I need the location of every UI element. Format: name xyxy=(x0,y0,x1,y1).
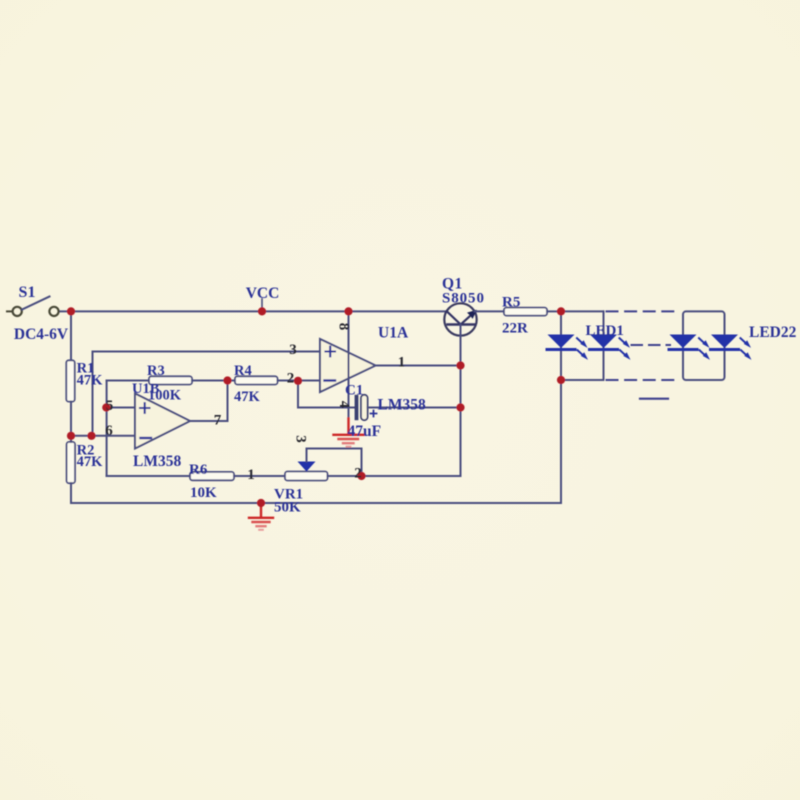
pin 2 VR1 xyxy=(354,466,362,482)
wire VCC rail S1 to Q1 xyxy=(59,310,447,312)
junction dot C1/base xyxy=(456,403,464,411)
wire pin2 feedback down xyxy=(298,381,355,408)
wire pin5/R3/R6 vertical xyxy=(106,381,108,477)
svg-text:47K: 47K xyxy=(77,454,104,470)
resistor R1 xyxy=(66,360,74,401)
junction dot LED bottom xyxy=(557,376,565,384)
pin 4 xyxy=(336,401,352,409)
wire C1 right lead xyxy=(368,407,461,409)
capacitor C1 xyxy=(355,395,377,420)
label LED1 xyxy=(586,323,624,339)
dashed continuation bottom xyxy=(607,379,681,381)
potentiometer VR1 xyxy=(285,449,362,481)
junction dot pin5 xyxy=(102,403,110,411)
switch S1 xyxy=(7,297,59,317)
label U1A xyxy=(378,325,409,342)
LED1b (right of pair) xyxy=(590,335,631,360)
dashed continuation top xyxy=(607,310,681,312)
svg-text:7: 7 xyxy=(214,413,222,429)
resistor R6 xyxy=(190,472,234,480)
pin 6 U1B xyxy=(105,423,113,439)
LED group1 rails xyxy=(561,311,604,380)
label LED22 xyxy=(749,324,797,341)
ground at C1/pin4 xyxy=(334,419,364,447)
svg-text:2: 2 xyxy=(287,371,295,387)
svg-text:S1: S1 xyxy=(19,284,36,301)
svg-text:C1: C1 xyxy=(345,383,363,399)
junction dot node6 xyxy=(87,432,95,440)
label R5 22R xyxy=(502,295,528,337)
pin 1 R6/VR1 xyxy=(247,467,255,483)
label R4 47K xyxy=(234,363,261,405)
svg-text:3: 3 xyxy=(289,342,297,358)
pin 3 U1A xyxy=(289,342,297,358)
transistor Q1 xyxy=(444,303,477,335)
VCC tick xyxy=(261,299,263,308)
dashed continuation middle xyxy=(632,344,671,346)
svg-text:LM358: LM358 xyxy=(133,453,181,470)
wire VR1 right lead xyxy=(328,475,362,477)
resistor R4 xyxy=(235,376,278,384)
pin 5 U1B xyxy=(106,398,114,414)
wire Q1 emitter to R5 xyxy=(475,310,504,312)
resistor R2 xyxy=(67,442,75,483)
continuation dash mark xyxy=(640,398,668,400)
label R2 47K xyxy=(77,443,104,471)
label VR1 50K xyxy=(274,487,303,516)
svg-text:R4: R4 xyxy=(234,363,252,379)
wire pin3 feedback vertical xyxy=(92,352,94,436)
wire R1 bottom lead xyxy=(70,402,72,436)
wire LED return down-left xyxy=(71,380,561,503)
wire R5 to LED node xyxy=(547,310,561,312)
svg-text:22R: 22R xyxy=(502,321,528,337)
resistor R3 xyxy=(149,376,192,384)
pin 8 xyxy=(336,323,352,331)
pin 2 U1A xyxy=(287,371,295,387)
svg-text:R5: R5 xyxy=(502,295,520,311)
svg-text:VCC: VCC xyxy=(246,285,280,302)
junction dot VCC xyxy=(258,307,266,315)
svg-text:LED1: LED1 xyxy=(586,323,624,339)
junction dot R3/R4 xyxy=(223,376,231,384)
svg-text:10K: 10K xyxy=(190,485,217,501)
svg-text:R3: R3 xyxy=(147,363,165,379)
label R1 47K xyxy=(77,361,104,389)
LED22a (left of pair) xyxy=(669,335,710,360)
label LM358 U1B xyxy=(133,453,181,470)
svg-text:R6: R6 xyxy=(189,462,208,478)
junction dot R5/LED top xyxy=(557,307,565,315)
svg-text:S8050: S8050 xyxy=(442,291,485,307)
svg-text:47uF: 47uF xyxy=(348,423,382,440)
resistor R5 xyxy=(504,308,547,316)
svg-text:2: 2 xyxy=(354,466,362,482)
svg-text:47K: 47K xyxy=(234,389,261,405)
wire U1B pin5 lead xyxy=(107,407,135,409)
wire R4 right lead to U1A minus xyxy=(278,380,321,382)
wire U1B output xyxy=(190,381,228,422)
LED group2 frame xyxy=(683,311,725,380)
LED1 (left of pair) xyxy=(547,335,588,360)
svg-text:LED22: LED22 xyxy=(749,324,797,341)
label DC4-6V xyxy=(14,326,69,343)
wire R6 to VR1 xyxy=(234,475,285,477)
svg-text:4: 4 xyxy=(336,401,352,409)
junction dot VR1 pin2 xyxy=(357,472,365,480)
op-amp U1B xyxy=(135,394,190,449)
svg-text:47K: 47K xyxy=(77,373,104,389)
label C1 xyxy=(345,383,363,399)
svg-text:3: 3 xyxy=(293,435,309,443)
junction dot ground rail xyxy=(257,499,265,507)
wire Q1 base vertical xyxy=(362,325,461,477)
wire U1A output xyxy=(376,365,461,367)
label R6 10K xyxy=(189,462,217,501)
pin 3 VR1 xyxy=(293,435,309,443)
LED22 (right of pair) xyxy=(711,335,752,360)
wire U1A pin8 pin4 stem xyxy=(348,311,350,419)
op-amp U1A xyxy=(320,339,376,392)
svg-text:50K: 50K xyxy=(274,500,301,516)
junction dot R1/R2 xyxy=(67,432,75,440)
label U1B xyxy=(132,381,160,397)
pin 1 U1A xyxy=(398,355,406,371)
label LM358 U1A xyxy=(378,397,426,414)
label Q1 S8050 xyxy=(442,276,485,307)
svg-text:8: 8 xyxy=(336,323,352,331)
label S1 xyxy=(19,284,36,301)
junction dot S1 node xyxy=(67,307,75,315)
label VCC xyxy=(246,285,280,302)
svg-text:1: 1 xyxy=(398,355,406,371)
svg-text:U1A: U1A xyxy=(378,325,409,342)
ground at bottom rail xyxy=(249,504,273,530)
svg-text:LM358: LM358 xyxy=(378,397,426,414)
label R3 100K xyxy=(147,363,182,404)
svg-text:5: 5 xyxy=(106,398,114,414)
svg-text:U1B: U1B xyxy=(132,381,160,397)
svg-text:1: 1 xyxy=(247,467,255,483)
wire node6 to U1B minus xyxy=(71,435,135,437)
junction dot pin2 xyxy=(294,377,302,385)
wire R3 right lead xyxy=(192,380,235,382)
junction dot output/base xyxy=(456,361,464,369)
label 47uF xyxy=(348,423,382,440)
wire R1 top lead xyxy=(70,311,72,360)
wire R3 left lead xyxy=(107,380,149,382)
pin 7 U1B xyxy=(214,413,222,429)
junction dot pin8 xyxy=(344,307,352,315)
wire U1A pin3 horizontal xyxy=(93,351,321,353)
svg-text:DC4-6V: DC4-6V xyxy=(14,326,69,343)
wire R6 left lead xyxy=(107,475,190,477)
svg-text:6: 6 xyxy=(105,423,113,439)
wire R2 leads xyxy=(70,436,72,503)
